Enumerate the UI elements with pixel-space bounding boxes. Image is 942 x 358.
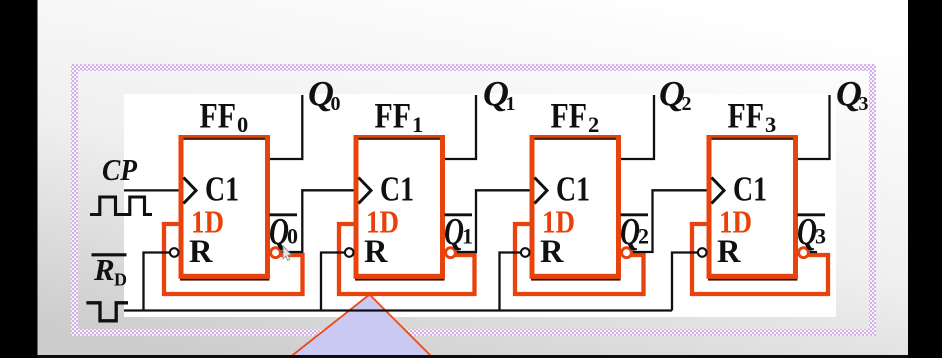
wire Q2 output	[621, 95, 655, 159]
FF1 R pin inversion bubble	[345, 248, 354, 257]
wire Q3-bar feedback to 1D input (orange loop)	[692, 224, 828, 294]
svg-text:3: 3	[765, 112, 776, 137]
wire Q1-bar feedback to 1D input (orange loop)	[339, 224, 475, 294]
node Q0-bar label	[269, 211, 298, 253]
wire CP to FF0 C1 pin	[124, 189, 182, 191]
svg-text:R: R	[717, 234, 741, 270]
label FF2	[551, 96, 600, 138]
flip-flop FF3 box	[708, 138, 798, 281]
svg-text:0: 0	[287, 224, 298, 249]
svg-text:2: 2	[682, 93, 692, 115]
FF3 Q-bar pin bubble	[799, 248, 809, 258]
node Q2 output label	[659, 74, 692, 116]
wire RD-bar reset net	[124, 309, 672, 311]
wire Q0-bar to FF1 C1 pin	[280, 190, 358, 252]
label FF0	[200, 96, 249, 138]
svg-text:C1: C1	[380, 170, 414, 209]
svg-text:FF: FF	[200, 96, 237, 136]
clock waveform symbol	[90, 197, 152, 215]
svg-text:0: 0	[237, 112, 248, 137]
svg-text:3: 3	[815, 224, 826, 249]
flip-flop FF0 box	[180, 138, 270, 281]
mouse cursor	[283, 246, 292, 261]
node Q3 output label	[836, 74, 869, 116]
FF0 pin C1 edge-triggered chevron	[184, 178, 197, 204]
node Q2-bar label	[620, 211, 649, 253]
label FF3	[728, 96, 777, 138]
FF1 pin C1 edge-triggered chevron	[359, 178, 372, 204]
flip-flop FF2 box	[531, 138, 621, 281]
svg-text:C1: C1	[733, 170, 767, 209]
reset pulse waveform symbol	[86, 303, 128, 321]
svg-text:C1: C1	[556, 170, 590, 209]
wire reset net to FF1 R pin	[321, 253, 345, 311]
FF0 R pin inversion bubble	[170, 248, 179, 257]
FF0 Q-bar pin bubble	[271, 248, 281, 258]
wire stub at Q3-bar bubble	[809, 251, 817, 253]
svg-text:1: 1	[412, 112, 423, 137]
node Q0 output label	[308, 74, 341, 116]
flip-flop FF1 box	[355, 138, 445, 281]
wire reset net to FF0 R pin	[144, 253, 170, 311]
wire reset net to FF2 R pin	[500, 253, 521, 311]
svg-text:FF: FF	[551, 96, 588, 136]
svg-text:3: 3	[859, 93, 869, 115]
svg-text:D: D	[114, 270, 127, 290]
callout triangle	[289, 295, 433, 358]
svg-text:FF: FF	[375, 96, 412, 136]
FF3 R pin inversion bubble	[698, 248, 707, 257]
wire reset net to FF3 R pin	[672, 253, 698, 311]
svg-text:1: 1	[506, 93, 516, 115]
FF2 R pin inversion bubble	[521, 248, 530, 257]
svg-text:Q: Q	[620, 211, 640, 253]
wire Q0-bar feedback to 1D input (orange loop)	[164, 224, 303, 294]
svg-text:0: 0	[331, 93, 341, 115]
wire Q0 output	[270, 95, 303, 159]
svg-text:C1: C1	[205, 170, 239, 209]
label FF1	[375, 96, 424, 138]
svg-text:2: 2	[638, 224, 649, 249]
svg-text:Q: Q	[269, 211, 289, 253]
svg-text:Q: Q	[444, 211, 464, 253]
FF2 Q-bar pin bubble	[622, 248, 632, 258]
wire Q1 output	[445, 95, 477, 159]
wire Q2-bar feedback to 1D input (orange loop)	[515, 224, 644, 294]
FF1 Q-bar pin bubble	[446, 248, 456, 258]
wire Q2-bar to FF3 C1 pin	[631, 190, 711, 252]
node Q3-bar label	[797, 211, 826, 253]
svg-text:2: 2	[588, 112, 599, 137]
node RD-bar reset label	[92, 252, 128, 290]
svg-text:Q: Q	[797, 211, 817, 253]
node Q1 output label	[483, 74, 516, 116]
svg-text:R: R	[364, 234, 388, 270]
FF3 pin C1 edge-triggered chevron	[712, 178, 725, 204]
svg-text:R: R	[540, 234, 564, 270]
svg-text:R: R	[189, 234, 213, 270]
wire Q1-bar to FF2 C1 pin	[455, 190, 534, 252]
FF2 pin C1 edge-triggered chevron	[535, 178, 548, 204]
svg-text:FF: FF	[728, 96, 765, 136]
svg-text:R: R	[93, 252, 115, 287]
svg-text:1: 1	[462, 224, 473, 249]
wire Q3 output	[798, 95, 830, 159]
node Q1-bar label	[444, 211, 473, 253]
svg-text:CP: CP	[102, 152, 138, 187]
